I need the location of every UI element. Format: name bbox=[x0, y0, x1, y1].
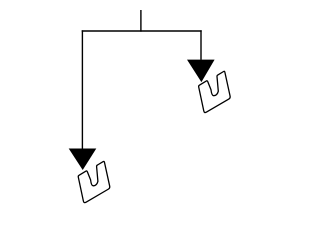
node symbol left (U-plate) bbox=[78, 161, 110, 202]
wire: left branch vertical bbox=[81, 30, 83, 148]
wire: horizontal bus bbox=[82, 30, 202, 32]
arrowhead left bbox=[69, 149, 97, 171]
node symbol right (U-plate) bbox=[199, 71, 231, 112]
arrowhead right bbox=[187, 60, 215, 83]
wire: top vertical stem bbox=[140, 10, 142, 32]
wire: right branch vertical bbox=[200, 30, 202, 60]
